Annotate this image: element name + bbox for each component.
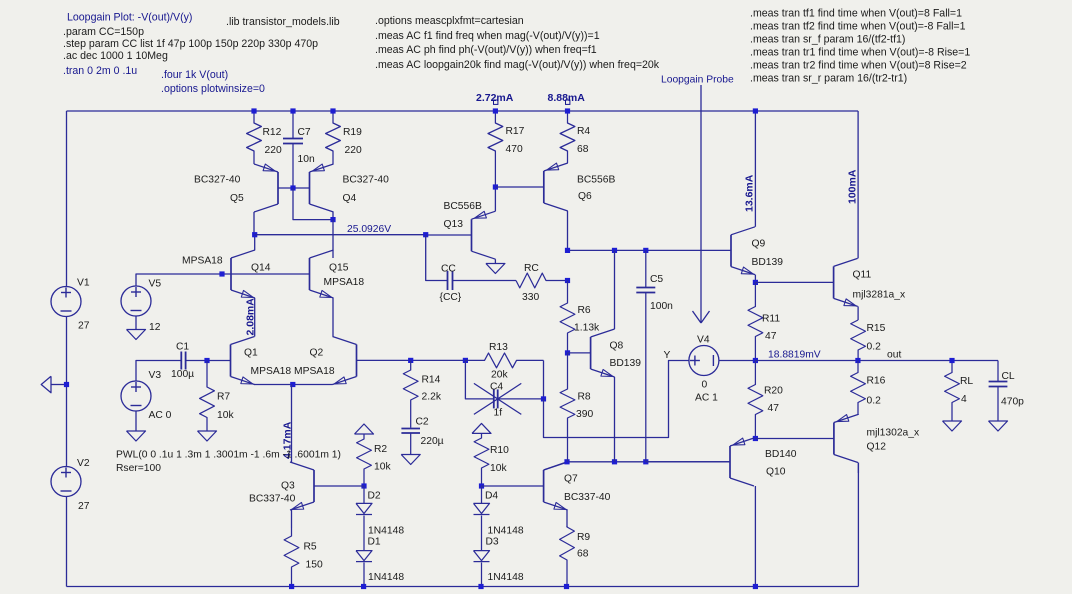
svg-text:CC: CC [441,264,456,275]
svg-text:BC556B: BC556B [444,201,482,212]
diode D4 1N4148 [481,486,483,503]
wire Q4 collector node down to Q15 collector [332,220,334,251]
resistor R2 [357,434,372,486]
svg-text:BC337-40: BC337-40 [249,494,296,505]
svg-text:R12: R12 [263,127,282,138]
junction R19 top rail [330,108,335,113]
svg-text:.options meascplxfmt=cartesian: .options meascplxfmt=cartesian [375,15,524,27]
svg-text:Q15: Q15 [329,263,349,274]
ground above R10 (rotated 180) [472,423,491,433]
svg-text:Loopgain Plot: -V(out)/V(y): Loopgain Plot: -V(out)/V(y) [67,12,192,24]
svg-text:V1: V1 [77,278,90,289]
svg-text:Q7: Q7 [564,474,578,485]
svg-text:330: 330 [522,292,539,303]
svg-text:1N4148: 1N4148 [488,572,524,583]
junction Q6 collector node [565,248,570,253]
svg-text:.meas tran tr2 find time when: .meas tran tr2 find time when V(out)=8 R… [750,60,967,72]
diode D2 1N4148 [363,486,365,503]
resistor R13 [465,353,543,368]
svg-text:10k: 10k [217,410,234,421]
voltage source V3 [121,381,151,411]
svg-text:.ac dec 1000 1 10Meg: .ac dec 1000 1 10Meg [63,50,168,62]
svg-text:470: 470 [506,144,523,155]
capacitor CL [997,361,999,382]
svg-text:Q3: Q3 [281,481,295,492]
junction node row / C5 [643,459,648,464]
wire Q13 emitter up to R17 node [494,187,496,211]
wire CC branch from 25V node [426,235,448,281]
wire left rail upper (top rail to V1) [66,111,68,287]
junction R10/D4/Q7 base [479,483,484,488]
node junction C1/R7/Q1 base [204,358,209,363]
wire Q4 collector lead [332,212,334,220]
svg-text:27: 27 [78,501,90,512]
ground under RL [943,421,962,431]
svg-text:47: 47 [765,331,777,342]
wire base node to Q6 [495,186,543,188]
transistor Q13 PNP BC556B [471,219,473,251]
junction C4 right node [541,396,546,401]
svg-text:R15: R15 [867,323,886,334]
svg-text:Q5: Q5 [230,193,244,204]
junction R5 bottom rail [289,584,294,589]
resistor R8 [560,353,575,462]
junction RL out node [949,358,954,363]
resistor R17 [488,111,503,187]
wire V4 right to out column [719,360,756,362]
resistor R15 [851,320,866,361]
transistor Q10 PNP BD140 (mirrored) [729,446,731,478]
svg-text:0.2: 0.2 [867,396,882,407]
junction node row / R8 [564,459,569,464]
wire Q10 base from node row [646,461,730,463]
wire Q10 emitter up lead [754,437,756,440]
svg-text:{CC}: {CC} [440,292,462,303]
svg-text:10k: 10k [490,463,507,474]
wire Q1-Q2 emitter rail [254,384,333,386]
svg-text:BD139: BD139 [610,358,642,369]
capacitor C5 [645,250,647,287]
svg-text:1N4148: 1N4148 [368,526,404,537]
junction D1 bottom rail [361,584,366,589]
svg-text:68: 68 [577,144,589,155]
capacitor CC {CC} [447,271,449,290]
resistor RL [945,361,960,422]
svg-text:220: 220 [265,145,282,156]
junction Q8 collector node [612,248,617,253]
resistor R5 [284,528,299,587]
svg-text:PWL(0 0 .1u 1 .3m 1 .3001m -1: PWL(0 0 .1u 1 .3m 1 .3001m -1 .6m -1 .60… [116,450,341,461]
svg-text:10n: 10n [298,154,315,165]
junction RC right / R6 column [565,278,570,283]
wire Q8 base [568,352,591,354]
svg-text:Q2: Q2 [310,348,324,359]
svg-text:.meas tran sr_r param 16/(tr2-: .meas tran sr_r param 16/(tr2-tr1) [750,73,907,85]
junction node row / Q8 emitter [612,459,617,464]
svg-text:.step param CC list 1f 47p 100: .step param CC list 1f 47p 100p 150p 220… [63,38,318,50]
wire Q9 collector up to rail [754,111,756,227]
svg-text:R20: R20 [764,386,783,397]
transistor Q6 PNP BC556B [543,171,545,203]
wire Y net from C4 node to V4 [544,361,690,438]
svg-text:220µ: 220µ [421,436,444,447]
voltage source V5 [121,286,151,316]
wire node row y=462 to Q10 base [567,461,730,463]
svg-text:Q4: Q4 [343,193,357,204]
svg-text:Q6: Q6 [578,191,592,202]
ground (left-rotated) at V1/V2 midpoint [51,384,67,386]
svg-text:V3: V3 [149,370,162,381]
ground above R2 (rotated 180) [355,424,374,434]
diode D3 1N4148 [474,551,490,561]
wire Q5-Q4 base link [278,187,310,189]
wire V3 to C1 [136,361,181,382]
junction R9 bottom rail [564,584,569,589]
capacitor C4 (shorted out marker) [493,389,495,408]
svg-text:BC337-40: BC337-40 [564,492,611,503]
svg-text:C2: C2 [416,417,429,428]
svg-text:27: 27 [78,321,90,332]
junction Q9 rail [753,108,758,113]
svg-text:2.08mA: 2.08mA [245,298,257,336]
X cross over C4 [474,383,521,414]
svg-text:1f: 1f [494,408,503,419]
wire R13 right down to C4 node [543,360,545,399]
svg-text:.param CC=150p: .param CC=150p [63,26,144,38]
junction R2/D2/Q3 base [361,483,366,488]
svg-text:.tran 0 2m 0 .1u: .tran 0 2m 0 .1u [63,65,137,77]
svg-text:0: 0 [702,380,708,391]
wire Q3 emitter down to R5 [291,510,293,528]
svg-text:R10: R10 [490,445,509,456]
svg-text:100n: 100n [650,301,673,312]
transistor Q9 NPN BD139 [730,235,732,267]
svg-text:Q8: Q8 [610,341,624,352]
svg-text:R19: R19 [343,127,362,138]
junction R14 top [408,358,413,363]
junction 25V node left [252,232,257,237]
svg-text:.four 1k V(out): .four 1k V(out) [161,69,228,81]
junction R13 left [463,358,468,363]
ground under Q13 [486,264,505,274]
wire Q3 base to junction [314,485,364,487]
wire Q13 base from 25V node [426,234,472,236]
svg-text:C7: C7 [298,127,311,138]
svg-text:.meas AC f1 find freq when mag: .meas AC f1 find freq when mag(-V(out)/V… [375,30,600,42]
resistor RC 330 [516,273,568,288]
svg-text:.meas AC ph find ph(-V(out)/V(: .meas AC ph find ph(-V(out)/V(y)) when f… [375,44,597,56]
svg-text:Q1: Q1 [244,348,258,359]
transistor Q3 NPN BC337-40 (mirrored) [313,470,315,502]
wire bottom rail right riser to Q12 collector [857,463,859,587]
svg-text:RC: RC [524,263,539,274]
resistor R7 [200,361,215,432]
svg-text:2.2k: 2.2k [422,392,442,403]
wire Q15 collector up [332,250,334,258]
svg-text:BD139: BD139 [752,257,784,268]
svg-text:BD140: BD140 [765,449,797,460]
svg-text:mjl1302a_x: mjl1302a_x [867,428,921,439]
svg-text:Q9: Q9 [752,239,766,250]
wire Q15 emitter down to Q2 collector [332,298,334,337]
transistor Q11 NPN mjl3281a_x [833,266,835,298]
svg-text:47: 47 [768,403,780,414]
junction R6/R8/Q8 base [565,350,570,355]
svg-text:150: 150 [306,560,323,571]
wire V2 to bottom rail [66,497,68,587]
wire Q9 emitter to junction [754,275,756,283]
svg-text:Loopgain Probe: Loopgain Probe [661,75,734,86]
svg-text:13.6mA: 13.6mA [744,174,756,212]
svg-text:C5: C5 [650,274,663,285]
svg-text:BC327-40: BC327-40 [194,175,241,186]
resistor R10 [474,433,489,486]
junction R17/Q13/Q6 base node [493,184,498,189]
svg-text:100mA: 100mA [847,169,859,204]
svg-text:390: 390 [576,409,593,420]
svg-text:RL: RL [960,376,973,387]
ground under R7 [198,431,217,441]
wire Q8 emitter down [614,377,616,462]
wire right rail down to Q11 collector [857,111,859,258]
resistor R20 [748,361,763,439]
wire Q12 collector lead [857,463,859,474]
svg-text:Q12: Q12 [867,442,887,453]
junction C5 top node [643,248,648,253]
resistor R4 [560,111,575,163]
junction C7 base node [290,185,295,190]
wire Q7 base from junction [482,485,544,487]
junction 25V node / CC branch [423,232,428,237]
junction Q10 bottom rail [753,584,758,589]
resistor R12 [247,111,262,164]
svg-text:1N4148: 1N4148 [488,526,524,537]
svg-text:MPSA18: MPSA18 [324,277,365,288]
svg-text:MPSA18: MPSA18 [182,256,223,267]
junction R17 top rail [493,108,498,113]
svg-text:C4: C4 [490,382,503,393]
wire Q14 collector up to 25V node [254,235,256,251]
voltage source V1 [51,287,81,317]
resistor R16 [851,361,866,416]
svg-text:V4: V4 [697,335,710,346]
wire Q7 emitter to R9 [566,510,568,527]
voltage source V4 (loopgain probe) [689,346,719,376]
wire Q7 collector to node row [544,462,567,470]
loopgain probe arrow [700,85,702,322]
svg-text:Y: Y [664,350,671,361]
wire Q10 collector down to bottom rail [754,486,756,587]
svg-text:AC 1: AC 1 [695,393,718,404]
resistor R11 [748,282,763,360]
junction R20/Q10 emitter/Q12 base [753,436,758,441]
svg-text:.meas AC loopgain20k find mag(: .meas AC loopgain20k find mag(-V(out)/V(… [375,59,660,71]
svg-text:12: 12 [149,322,161,333]
resistor R14 [403,360,418,427]
transistor Q5 PNP BC327-40 [277,172,279,204]
capacitor C7 [292,111,294,139]
svg-text:V2: V2 [77,458,90,469]
svg-text:220: 220 [345,145,362,156]
wire Q6 collector down to node [567,211,569,250]
junction emitter rail [290,382,295,387]
svg-text:20k: 20k [491,370,508,381]
svg-text:R14: R14 [422,375,441,386]
svg-text:2.72mA: 2.72mA [476,92,514,104]
svg-text:R11: R11 [762,314,780,325]
transistor Q4 PNP BC327-40 (mirrored) [309,172,311,204]
svg-text:D2: D2 [368,491,381,502]
transistor Q15 NPN MPSA18 [309,258,311,290]
wire Q13 collector down [494,259,496,263]
svg-text:100µ: 100µ [171,369,194,380]
node junction V1-V2 midpoint [64,382,69,387]
wire V1 to ground node [66,317,68,467]
diode D1 1N4148 [356,551,372,561]
svg-text:R4: R4 [577,126,590,137]
junction D3 bottom rail [478,584,483,589]
svg-text:4: 4 [961,394,967,405]
wire Q12 base [755,438,834,440]
svg-text:R17: R17 [506,126,525,137]
resistor R6 [560,281,575,353]
svg-text:D4: D4 [485,491,498,502]
wire top supply rail [67,110,859,112]
svg-text:R8: R8 [578,392,591,403]
svg-text:mjl3281a_x: mjl3281a_x [853,290,907,301]
svg-text:10k: 10k [374,462,391,473]
svg-text:BC556B: BC556B [577,175,615,186]
svg-text:8.88mA: 8.88mA [548,92,586,104]
svg-text:1N4148: 1N4148 [368,572,404,583]
transistor Q8 NPN BD139 [590,337,592,369]
svg-text:18.8819mV: 18.8819mV [768,350,821,361]
wire Q8 collector up [614,250,616,329]
svg-text:R2: R2 [374,444,387,455]
ground under V3 [135,411,137,431]
svg-text:Q14: Q14 [251,263,271,274]
svg-text:D1: D1 [368,537,381,548]
svg-text:R6: R6 [578,305,591,316]
svg-text:.meas tran tf1 find time when: .meas tran tf1 find time when V(out)=8 F… [750,8,962,20]
svg-text:.lib transistor_models.lib: .lib transistor_models.lib [226,16,340,28]
svg-text:25.0926V: 25.0926V [347,224,391,235]
svg-text:R7: R7 [217,392,230,403]
ground under V5 [135,317,137,330]
svg-text:R16: R16 [867,376,886,387]
svg-text:68: 68 [577,549,589,560]
transistor Q2 NPN MPSA18 (mirrored) [356,345,358,377]
wire base node down to Q4 collector node [293,188,333,220]
junction C7 top rail [290,108,295,113]
ground under C2 [401,455,420,465]
svg-text:0.2: 0.2 [867,342,882,353]
wire out net [755,360,998,362]
svg-text:.meas tran sr_f param 16/(tf2-: .meas tran sr_f param 16/(tf2-tf1) [750,34,905,46]
node junction on V5-base wire [219,271,224,276]
transistor Q7 NPN BC337-40 [543,470,545,502]
svg-text:out: out [887,350,901,361]
transistor Q12 PNP mjl1302a_x [833,423,835,455]
capacitor C1 [180,352,182,370]
wire Q11 emitter to R15 [857,306,859,320]
junction out/R15/R16 [855,358,860,363]
svg-text:Rser=100: Rser=100 [116,463,161,474]
svg-text:Q10: Q10 [766,467,786,478]
junction R12 top rail [251,108,256,113]
svg-text:.meas tran tr1 find time when: .meas tran tr1 find time when V(out)=-8 … [750,47,970,59]
ground under CL [989,421,1008,431]
wire Q12 emitter to R16 [857,414,859,417]
svg-text:MPSA18 MPSA18: MPSA18 MPSA18 [251,366,335,377]
wire Q5 collector down [253,212,255,235]
wire mid node y=250 to Q9 base [568,249,732,251]
junction V4/R11/R20 node [753,358,758,363]
svg-text:R5: R5 [304,542,317,553]
svg-text:AC 0: AC 0 [149,410,172,421]
junction Q9 emitter / R11 / Q11 base [753,280,758,285]
wire to Q11 base [755,281,833,283]
svg-text:CL: CL [1002,371,1015,382]
svg-text:470p: 470p [1001,397,1024,408]
svg-text:C1: C1 [176,342,189,353]
voltage source V2 [51,467,81,497]
junction R4 top rail [565,108,570,113]
svg-text:.options plotwinsize=0: .options plotwinsize=0 [161,83,265,95]
wire 25.0926V node [255,234,426,236]
svg-text:R13: R13 [489,342,508,353]
transistor Q1 NPN MPSA18 [230,345,232,377]
svg-text:R9: R9 [577,532,590,543]
svg-text:Q13: Q13 [444,219,464,230]
resistor R19 [326,111,341,164]
wire bottom rail [67,586,859,588]
capacitor C2 [401,428,420,430]
svg-text:V5: V5 [149,279,162,290]
resistor R9 [560,526,575,587]
svg-text:1.13k: 1.13k [574,323,600,334]
wire Q14 emitter down to Q1 collector [254,298,256,337]
svg-text:Q11: Q11 [853,270,872,281]
wire V5 plus to Q14 base [136,274,310,286]
junction Q4 collector node [330,217,335,222]
svg-text:D3: D3 [486,537,499,548]
svg-text:.meas tran tf2 find time when: .meas tran tf2 find time when V(out)=-8 … [750,21,966,33]
wire emitter rail down to Q3 collector [291,385,293,463]
transistor Q14 NPN MPSA18 [230,258,232,290]
wire C4 left branch [465,360,493,399]
svg-text:BC327-40: BC327-40 [343,175,390,186]
wire Q2 base to R13 node [357,359,466,361]
